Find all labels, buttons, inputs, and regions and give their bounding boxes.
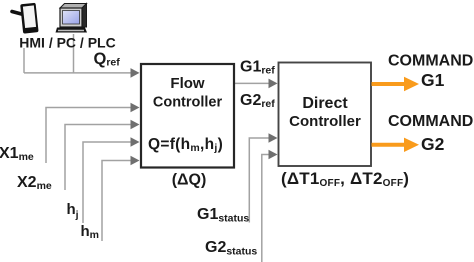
wire G1status: [249, 138, 269, 223]
wire Gref bus: [234, 82, 269, 84]
wire X1me: [46, 108, 131, 164]
wire HMI drop: [23, 48, 25, 73]
block Direct Controller: [279, 63, 372, 167]
wire X2me: [65, 125, 131, 191]
arrow COMMAND G1 (orange): [372, 77, 420, 91]
svg-text:Controller: Controller: [153, 95, 223, 111]
svg-text:(ΔQ): (ΔQ): [172, 172, 207, 189]
svg-text:Direct: Direct: [302, 95, 348, 112]
svg-text:COMMAND: COMMAND: [388, 52, 473, 69]
svg-text:HMI / PC / PLC: HMI / PC / PLC: [19, 35, 115, 51]
svg-text:G2: G2: [421, 134, 445, 154]
svg-text:Controller: Controller: [289, 113, 361, 130]
wire Qref: [24, 72, 131, 74]
wire G2status: [262, 155, 269, 262]
icon HMI PDA: [12, 3, 39, 34]
block Flow Controller: [141, 64, 234, 168]
icon PC monitor: [56, 4, 88, 33]
svg-text:Q=f(hm,hj): Q=f(hm,hj): [148, 136, 223, 154]
svg-text:G1: G1: [421, 70, 445, 90]
svg-text:COMMAND: COMMAND: [388, 113, 473, 130]
arrow COMMAND G2 (orange): [372, 138, 420, 152]
wire hm: [102, 161, 131, 242]
svg-text:Flow: Flow: [170, 75, 204, 92]
wire hj: [83, 142, 131, 223]
wire PC drop: [73, 34, 75, 73]
